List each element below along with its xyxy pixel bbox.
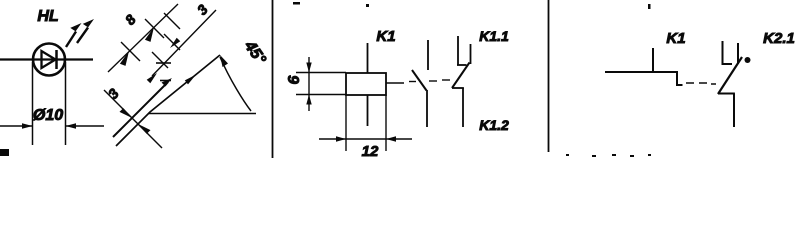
svg-text:K1: K1 (376, 28, 395, 45)
detail: lower emission arrow extended to the 45 deg construction (116, 55, 228, 146)
extension line bottom of 6 dimension (296, 94, 346, 96)
svg-text:3: 3 (105, 85, 122, 102)
break contact stop bar (457, 64, 467, 66)
fixed terminal stub (652, 48, 654, 72)
svg-text:K1.1: K1.1 (479, 28, 509, 44)
emission arrow 2 (77, 19, 94, 43)
svg-text:45°: 45° (240, 37, 269, 68)
link dash (429, 80, 437, 82)
extension tick 3 of chained dimension (164, 13, 180, 29)
break contact K2.1 bottom foot (718, 93, 735, 95)
coil top wire (367, 43, 369, 73)
extension line right of dia.10 (65, 62, 67, 145)
svg-text:6: 6 (286, 75, 303, 84)
make contact moving arm (412, 70, 427, 91)
break contact K2.1 stop bar (722, 63, 733, 65)
extension line top of 6 dimension (296, 72, 346, 74)
link dash (699, 82, 707, 84)
svg-text:K1.2: K1.2 (479, 117, 509, 133)
extension tick at head tip (164, 34, 180, 50)
lower outside arrow of head dimension (147, 73, 157, 83)
wire corner drop (677, 71, 683, 85)
wire (0, 58, 93, 60)
scan dash upper (156, 62, 171, 64)
break contact K2.1 moving arm (718, 57, 742, 94)
LED circle body (33, 44, 65, 76)
dimension line dia.10 right arrow (66, 123, 105, 129)
svg-text:3: 3 (194, 1, 211, 18)
extension line left of 12 dimension (345, 95, 347, 151)
detail: upper emission arrow drawn enlarged (113, 78, 172, 137)
svg-text:Ø10: Ø10 (33, 107, 63, 124)
dimension line dia.10 left arrow (0, 123, 33, 129)
second terminal stub (737, 43, 739, 64)
extension tick at head base (152, 52, 168, 68)
upper arrow of 6 dimension (306, 63, 311, 73)
make contact of K1: top terminal (427, 40, 429, 70)
svg-text:K2.1: K2.1 (763, 30, 795, 47)
scan dash near arrow head (160, 80, 171, 82)
extension line left of dia.10 (32, 62, 34, 145)
break contact moving arm (452, 63, 470, 89)
break contact second terminal stub (470, 44, 472, 64)
break contact K2.1: top terminal (722, 41, 724, 64)
scan speck above coil (366, 4, 369, 7)
emission arrow 1 (66, 23, 82, 47)
horizontal reference line of 45 deg angle (148, 113, 256, 115)
link dash (409, 81, 416, 83)
break contact K2.1 bottom terminal (733, 94, 735, 128)
horizontal wire right panel (605, 71, 677, 73)
cathode bar (55, 50, 58, 69)
scan artifact top of middle panel (293, 2, 300, 5)
lower arrow of 6 dimension (306, 95, 311, 105)
make contact bottom terminal (426, 90, 428, 127)
relay coil K1 body (346, 73, 386, 95)
panel divider 2 (548, 0, 550, 152)
lower inward arrow of spacing dimension (138, 124, 151, 134)
coil bottom wire (367, 95, 369, 126)
dimension line 12 (319, 138, 412, 140)
link dash (711, 83, 716, 85)
right arrow of 12 dimension (386, 136, 396, 141)
diode triangle (anode) (42, 51, 56, 68)
svg-text:HL: HL (37, 8, 58, 25)
dimension line 6 (308, 57, 310, 111)
panel divider 1 (272, 0, 274, 158)
break contact bottom foot (452, 87, 464, 89)
dimension line for arrowhead value 3 (152, 10, 216, 76)
svg-text:8: 8 (122, 11, 139, 28)
spacing dimension line for value 3 between arrows (104, 90, 162, 148)
break contact K1.1/K1.2: top terminal (457, 36, 459, 65)
extension tick 2 of 8 dimension (145, 19, 164, 38)
node dot (745, 57, 751, 63)
svg-text:12: 12 (362, 143, 379, 160)
left arrow of 12 dimension (336, 136, 346, 141)
arrow at upper end of 8 dimension (145, 27, 154, 42)
link dash right panel (686, 82, 694, 84)
extension tick 1 of 8 dimension (121, 42, 140, 61)
45 deg arc (220, 57, 251, 111)
break contact bottom terminal (462, 88, 464, 127)
scan artifact bottom-left (0, 149, 9, 156)
mechanical link dash from coil (386, 82, 404, 84)
svg-text:K1: K1 (666, 30, 685, 47)
scan speck top (648, 4, 651, 9)
upper outside arrow of head dimension (170, 38, 180, 48)
upper inward arrow of spacing dimension (120, 108, 133, 118)
arrow at lower end of 8 dimension (120, 51, 129, 66)
scan specks bottom right (566, 154, 651, 157)
dimension line for value 8 (108, 4, 178, 72)
extension line right of 12 dimension (385, 95, 387, 151)
link dash (442, 79, 450, 81)
